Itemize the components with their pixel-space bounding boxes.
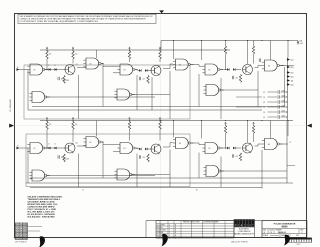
svg-text:PRINTED CIRCUIT REV.: PRINTED CIRCUIT REV. [183,222,200,224]
nand gate A6 [262,60,283,71]
wire [163,146,170,148]
+10V terminal A [129,47,131,51]
resistor RB2 [72,122,74,130]
wire [77,145,86,147]
wire feedback row1 c [102,66,104,107]
svg-text:DEC FORM NO: DEC FORM NO [15,241,28,243]
svg-text:E1: E1 [34,148,36,150]
svg-text:E2: E2 [90,64,92,66]
power rail +10V row2 segment A [40,120,293,122]
svg-text:1.5: 1.5 [263,92,265,94]
diode DA6 [233,68,235,71]
svg-text:750: 750 [75,124,78,126]
wire [131,174,170,176]
wire drop x201 [201,41,203,61]
transistor QA1 [65,64,75,74]
wire row1 output drop [284,67,286,107]
input terminal AIN [17,68,20,71]
wire feedback row2 a [27,148,29,183]
diode DB2 [55,147,57,150]
terminal D row1 [287,58,290,61]
wire [255,67,259,69]
wire [163,68,170,70]
enclosure row2 [26,134,190,187]
resistor RB9 [252,126,254,134]
svg-text:E3: E3 [124,148,126,150]
svg-text:E3: E3 [124,70,126,72]
svg-text:D1: D1 [48,143,50,145]
wire feedback row2 d [136,154,138,188]
terminal F row1 [287,71,290,74]
resistor RA1 [46,51,48,59]
fold mark left [9,124,14,128]
wire bus right upper [286,58,288,89]
transistor QA2 [151,65,161,75]
registration blob right [284,235,290,246]
svg-text:B: B [175,224,176,226]
wire E6 out stub [282,65,294,67]
wire [220,147,227,149]
wire feedback row2 h [261,150,263,189]
nand gate B3 [117,143,138,154]
wire row2 output [285,143,288,145]
scale row [262,232,307,234]
wire feedback row2 b [78,154,80,188]
svg-text:B: B [175,237,176,239]
transistor QB3 [243,143,253,153]
nand gate A9 [203,85,224,96]
capacitor CA2 [58,77,59,80]
resistor RA9 [253,41,255,47]
wire feedback row2 e [169,150,171,188]
resistor RB6 [63,154,65,162]
svg-text:750: 750 [49,124,52,126]
fold crease vertical [160,14,162,238]
wire drop x247 [247,41,249,65]
transistor QB1 [65,143,75,153]
svg-text:W606: W606 [281,226,288,228]
nand gate B2 [83,137,104,148]
wire leader row 107 [236,106,262,108]
svg-text:B: B [175,230,176,232]
resistor RB3 [128,122,130,130]
size code number row [262,228,307,230]
resistor RA3 [128,51,130,59]
svg-text:INCH: INCH [297,244,301,246]
wire drop G2 row1 [96,50,98,58]
svg-text:C1 .01 MFD: C1 .01 MFD [157,224,166,226]
svg-text:+10V: +10V [300,43,304,45]
svg-text:1.5: 1.5 [263,117,265,119]
svg-text:E4: E4 [179,143,181,145]
wire [131,94,170,96]
svg-text:C(W): C(W) [282,95,286,97]
wire feedback row1 a [27,70,29,111]
transistor QB2 [151,144,161,154]
nand gate A3 [117,64,138,75]
svg-text:680: 680 [61,157,64,159]
svg-text:1.5: 1.5 [263,107,265,109]
terminal J row1 [287,79,290,82]
svg-text:F: F [294,65,295,67]
wire [198,143,200,145]
terminal H row1 [287,75,290,78]
enclosure row1 [24,65,190,119]
diode DB4 [145,148,147,151]
resistor RA4 [159,51,161,59]
terminal E row1 [287,66,290,69]
svg-text:220: 220 [236,156,239,158]
power rail +10V row1 segment B [161,40,293,42]
svg-text:B: B [175,235,176,237]
svg-text:750: 750 [75,54,78,56]
registration blob left [39,236,45,247]
wire [102,64,104,67]
wire [135,148,139,149]
svg-text:E5: E5 [209,70,211,72]
registration blob center [162,234,168,247]
wire [198,65,200,67]
wire feedback row1 f [169,71,171,119]
svg-text:B: B [175,227,176,229]
nand gate B7 [29,170,50,181]
nand gate B6 [262,139,283,150]
+10V terminal B [46,117,48,121]
svg-text:DIST: DIST [296,235,299,237]
capacitor CB2 [58,155,59,158]
svg-text:D(1): D(1) [291,59,294,61]
diode DB1 [49,147,51,150]
terminal K row1 [287,83,290,86]
+10V terminal B [159,117,161,121]
wire [220,170,287,172]
resistor RB4 [159,122,161,130]
+10V terminal B [72,117,74,121]
resistor RB7 [239,153,241,161]
nand gate B9 [203,166,224,177]
svg-text:1.5: 1.5 [263,102,265,104]
svg-text:PULSE GENERATOR: PULSE GENERATOR [274,222,296,225]
svg-text:COPIED OR USED IN WHOLE OR IN: COPIED OR USED IN WHOLE OR IN PART AS TH… [20,18,147,21]
svg-text:C-30688: C-30688 [10,98,12,111]
svg-text:R14 750: R14 750 [157,235,163,237]
wire [135,70,139,71]
svg-text:220: 220 [143,79,146,81]
svg-text:Q2 DEC2894: Q2 DEC2894 [157,230,166,232]
+10V terminal B [129,117,131,121]
diode DA1 [49,68,51,71]
svg-text:E5: E5 [209,148,211,150]
svg-text:C(W): C(W) [282,100,286,102]
wire leader row 97 [236,96,262,98]
wire feedback row1 e [151,77,153,110]
wire [102,142,104,145]
wire bus right low [286,121,288,183]
svg-text:C(W): C(W) [282,115,286,117]
wire feedback row2 f [198,153,200,179]
resistor RA2 [72,51,74,59]
wire feedback row1 b [78,75,80,119]
wire stub right [287,165,295,167]
svg-text:D2: D2 [54,143,56,145]
svg-text:COPYRIGHT 1969 BY DIGITAL EQUI: COPYRIGHT 1969 BY DIGITAL EQUIPMENT CORP… [20,20,99,23]
wire feedback row1 i [257,71,259,107]
svg-text:B: B [175,232,176,234]
wire feedback row2 c [102,145,104,179]
svg-text:220: 220 [236,78,239,80]
wire feedback row2 g [220,157,222,188]
nand gate A7 [29,92,50,103]
revision table [15,223,28,239]
power rail +10V row1 segment A [40,49,230,51]
wire [46,175,155,177]
capacitor C9 [259,59,260,62]
wire rail step [160,41,162,51]
wire bus right [286,88,288,121]
diode DA5 [227,68,229,71]
svg-text:E3,E4,E6: SN7474N: E3,E4,E6: SN7474N [28,216,56,219]
wire drop2 G2 [96,121,98,137]
resistor RA8 [225,41,227,47]
nand gate A2 [83,58,104,69]
wire feedback row1 d [136,75,138,110]
resistor RA6 [63,76,65,84]
fold mark top [159,10,164,13]
svg-text:CORPORATION: CORPORATION [238,230,251,233]
svg-text:E6: E6 [268,66,270,68]
svg-text:1.5: 1.5 [263,97,265,99]
wire leader [28,226,43,228]
diode DB3 [139,148,141,151]
wire [255,145,259,147]
nand gate B1 [27,143,48,154]
diode DA3 [139,69,141,72]
diode DA4 [145,69,147,72]
wire drop x288 [287,41,289,58]
wire [77,67,86,69]
fold crease horizontal [15,125,307,127]
input terminal BIN [17,147,20,150]
svg-text:Q1: Q1 [76,143,78,145]
svg-text:750: 750 [49,54,52,56]
digital logo [234,219,254,227]
svg-text:E6: E6 [268,144,270,146]
wire drop2 x247 [247,121,249,143]
fold mark right [307,124,312,128]
nand gate A4 [173,59,194,70]
nand gate B5 [202,143,223,154]
resistor RA5 [147,76,149,84]
+10V terminal A [46,47,48,51]
resistor RB8 [224,126,226,134]
parts list table [156,221,234,239]
svg-text:D6 D-664: D6 D-664 [157,232,164,234]
capacitor CB1 [139,155,140,158]
wire bottom bus row2 [30,186,262,188]
svg-text:E1: E1 [34,70,36,72]
wire drop2 x288 [287,121,289,137]
nand gate A1 [27,64,48,75]
diode DB6 [233,147,235,150]
nand gate A5 [202,64,223,75]
wire drop x173 [173,41,175,60]
capacitor CA3 [233,76,234,79]
wire [220,89,258,91]
title block [146,220,307,222]
resistor RA7 [239,75,241,83]
svg-text:220: 220 [143,157,146,159]
wire drop2 x173 [173,121,175,138]
scale ruler strip [289,238,312,240]
wire [44,147,49,149]
capacitor CB3 [233,154,234,157]
capacitor CA1 [139,77,140,80]
svg-text:C(W): C(W) [282,105,286,107]
diode DB5 [227,147,229,150]
+10V terminal B [253,122,255,126]
wire [44,69,49,71]
wire [220,69,227,71]
wire drop2 x201 [201,121,203,139]
svg-text:C(W): C(W) [282,90,286,92]
svg-text:680: 680 [61,79,64,81]
power terminal +10V A,B row1 [297,41,299,45]
transistor QA3 [243,64,253,74]
svg-text:R2 1500: R2 1500 [157,227,163,229]
wire [46,96,155,98]
+10V terminal A [72,47,74,51]
+10V terminal A [159,47,161,51]
svg-text:C(W): C(W) [282,110,286,112]
+10V terminal B [225,122,227,126]
diode DA2 [55,68,57,71]
resistor RB1 [46,122,48,130]
nand gate A8 [114,89,135,100]
resistor RB5 [147,154,149,162]
nand gate B4 [173,138,194,149]
svg-text:E2: E2 [90,142,92,144]
svg-text:1.5: 1.5 [263,112,265,114]
notice box [18,14,156,23]
svg-text:K(1): K(1) [291,84,294,86]
wire drop2 x270 [270,121,272,139]
svg-text:THIS SCHEMATIC IS FURNISHED ON: THIS SCHEMATIC IS FURNISHED ONLY FOR TES… [20,15,154,18]
svg-text:H(1): H(1) [291,76,294,78]
wire feedback row1 h [220,78,222,119]
svg-text:C8 680: C8 680 [157,237,162,239]
nand gate B8 [114,169,135,180]
wire feedback row1 g [198,74,200,107]
wire drop x270 [270,41,272,61]
